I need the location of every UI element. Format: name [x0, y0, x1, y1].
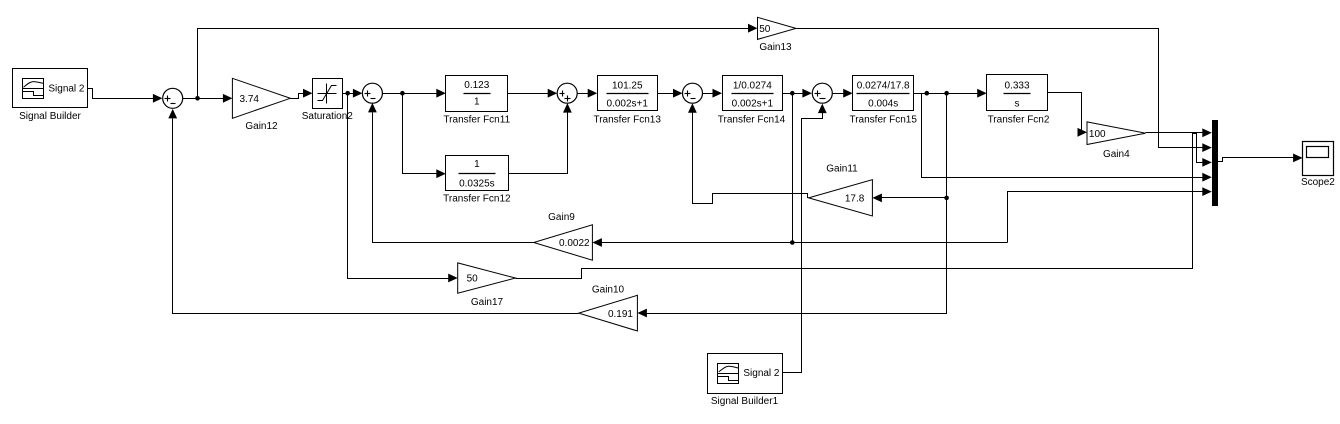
block Transfer Fcn11 (0.123/1) — [446, 76, 508, 112]
svg-text:Saturation2: Saturation2 — [302, 111, 354, 122]
svg-text:Signal 2: Signal 2 — [743, 368, 780, 379]
svg-text:Gain17: Gain17 — [471, 297, 504, 308]
svg-text:0.191: 0.191 — [608, 309, 633, 320]
sum junction Sum2 (+,-) — [362, 83, 382, 103]
wire branch down to Transfer Fcn12 — [403, 94, 446, 179]
label Saturation2 — [302, 111, 354, 122]
gain Gain17 (50) — [458, 263, 516, 293]
node branch after Sum2 — [400, 91, 405, 96]
svg-text:3.74: 3.74 — [240, 94, 260, 105]
label Transfer Fcn12 — [443, 194, 511, 205]
wire Transfer Fcn12 to Sum3 bottom — [509, 103, 572, 173]
svg-text:Gain9: Gain9 — [548, 212, 575, 223]
svg-text:17.8: 17.8 — [845, 193, 865, 204]
sum junction Sum3 (+,+) — [557, 83, 577, 103]
wire Gain11 to Sum4 bottom — [688, 103, 809, 203]
node branch after Saturation2 — [345, 91, 350, 96]
label Gain13 — [759, 42, 792, 53]
wire Gain17 to Mux input 3 — [516, 134, 1212, 279]
label Transfer Fcn2 — [988, 114, 1050, 125]
svg-text:Transfer Fcn12: Transfer Fcn12 — [443, 194, 511, 205]
gain Gain13 (50) — [758, 17, 797, 39]
wire branch up to Gain13 — [198, 24, 758, 99]
wire Signal Builder to Sum1 — [88, 89, 163, 103]
svg-text:Transfer Fcn15: Transfer Fcn15 — [849, 114, 917, 125]
svg-text:Gain10: Gain10 — [592, 285, 625, 296]
wire Transfer Fcn13 to Sum4 — [658, 89, 683, 98]
label Scope2 — [1301, 177, 1335, 188]
block Transfer Fcn13 (101.25/0.002s+1) — [598, 76, 658, 111]
node branch A after Transfer Fcn15 — [925, 91, 930, 96]
svg-text:Gain4: Gain4 — [1103, 149, 1130, 160]
label Gain10 — [592, 285, 625, 296]
block Saturation2 — [313, 79, 343, 109]
wire Sum1 to Gain12 — [183, 94, 233, 103]
svg-text:0.333: 0.333 — [1005, 80, 1030, 91]
svg-text:Signal Builder: Signal Builder — [19, 111, 81, 122]
svg-text:0.123: 0.123 — [464, 80, 489, 91]
svg-text:1: 1 — [474, 96, 480, 107]
svg-text:Signal Builder1: Signal Builder1 — [711, 396, 779, 407]
wire Gain4 to Mux input 1 — [1146, 128, 1212, 137]
svg-text:Transfer Fcn2: Transfer Fcn2 — [988, 114, 1050, 125]
svg-text:Gain12: Gain12 — [245, 121, 278, 132]
sum junction Sum5 (+,-) — [812, 83, 832, 103]
wire branch A to Mux input 4 — [922, 94, 1212, 182]
svg-text:Scope2: Scope2 — [1301, 177, 1335, 188]
label Transfer Fcn13 — [593, 114, 661, 125]
svg-text:Transfer Fcn13: Transfer Fcn13 — [593, 114, 661, 125]
node branch after Transfer Fcn14 — [790, 91, 795, 96]
svg-text:s: s — [1015, 99, 1020, 110]
block Transfer Fcn14 (1/0.0274 / 0.002s+1) — [723, 76, 783, 111]
gain Gain10 (0.191, reversed) — [579, 295, 638, 331]
wire branch down to Gain17 — [348, 94, 458, 283]
wire Gain13 to Mux input 2 — [797, 29, 1212, 153]
wire Gain12 to Saturation2 — [291, 89, 313, 99]
wire Transfer Fcn15 to Transfer Fcn2 — [914, 89, 987, 98]
wire Gain9 input line — [592, 238, 1007, 247]
node branch after Sum1 — [195, 96, 200, 101]
mux Mux (5 inputs) — [1212, 120, 1218, 206]
block Transfer Fcn2 (0.333/s) — [987, 75, 1048, 111]
svg-text:0.002s+1: 0.002s+1 — [607, 99, 649, 110]
label Transfer Fcn15 — [849, 114, 917, 125]
wire Sum3 to Transfer Fcn13 — [578, 89, 598, 98]
block Signal Builder (source, Signal 2) — [13, 69, 88, 108]
svg-text:1: 1 — [474, 159, 480, 170]
label Gain4 — [1103, 149, 1130, 160]
sum junction Sum4 (+,-) — [683, 83, 703, 103]
wire Gain10 to Sum1 bottom — [168, 109, 578, 314]
svg-text:50: 50 — [467, 274, 479, 285]
block Signal Builder1 (source, Signal 2) — [708, 354, 783, 394]
gain Gain11 (17.8, reversed) — [809, 180, 873, 216]
svg-text:Transfer Fcn14: Transfer Fcn14 — [718, 114, 786, 125]
svg-text:Signal 2: Signal 2 — [48, 83, 85, 94]
wire Transfer Fcn14 to Sum5 — [783, 89, 812, 98]
svg-text:0.0022: 0.0022 — [559, 238, 590, 249]
gain Gain4 (100) — [1087, 122, 1146, 145]
label Gain9 — [548, 212, 575, 223]
svg-text:0.0325s: 0.0325s — [459, 178, 495, 189]
gain Gain9 (0.0022, reversed) — [534, 225, 593, 260]
block Transfer Fcn15 (0.0274/17.8 / 0.004s) — [853, 76, 914, 111]
label Gain17 — [471, 297, 504, 308]
wire Sum2 to Transfer Fcn11 — [383, 89, 446, 98]
svg-text:1/0.0274: 1/0.0274 — [733, 81, 772, 92]
label Transfer Fcn14 — [718, 114, 786, 125]
svg-text:Gain13: Gain13 — [759, 42, 792, 53]
wire Gain9 to Sum2 bottom — [368, 103, 534, 243]
wire branch down to Gain9 line — [792, 94, 794, 243]
svg-text:100: 100 — [1089, 129, 1106, 140]
sum junction Sum1 (+,-) — [163, 88, 183, 108]
block Transfer Fcn12 (1/0.0325s) — [446, 156, 509, 191]
node branch B after Transfer Fcn15 — [944, 91, 949, 96]
wire tap to Gain11 input — [872, 194, 946, 203]
label Transfer Fcn11 — [443, 114, 510, 125]
wire Transfer Fcn11 to Sum3 — [508, 89, 558, 98]
wire Mux to Scope2 — [1218, 154, 1303, 163]
svg-text:Gain11: Gain11 — [826, 164, 858, 175]
gain Gain12 (3.74) — [232, 78, 290, 118]
wire Signal Builder1 to Sum5 bottom — [783, 104, 827, 373]
wire branch B down to Gain10 — [637, 94, 946, 318]
wire Saturation2 to Sum2 — [343, 89, 363, 98]
wire Sum5 to Transfer Fcn15 — [833, 89, 853, 98]
svg-text:101.25: 101.25 — [612, 81, 643, 92]
wire Transfer Fcn2 to Gain4 — [1048, 93, 1088, 137]
wire Sum4 to Transfer Fcn14 — [703, 89, 723, 98]
block Scope2 — [1303, 142, 1334, 176]
wire right end up to Mux input 5 — [1008, 187, 1212, 242]
label Signal Builder1 — [711, 396, 779, 407]
label Gain12 — [245, 121, 278, 132]
label Signal Builder — [19, 111, 81, 122]
svg-text:0.0274/17.8: 0.0274/17.8 — [857, 81, 910, 92]
node junction Gain11 tap — [944, 196, 949, 201]
svg-text:0.004s: 0.004s — [868, 99, 898, 110]
node junction on Gain9 line — [790, 240, 795, 245]
svg-text:0.002s+1: 0.002s+1 — [732, 99, 774, 110]
label Gain11 — [826, 164, 858, 175]
svg-text:Transfer Fcn11: Transfer Fcn11 — [443, 114, 510, 125]
svg-text:50: 50 — [759, 24, 771, 35]
